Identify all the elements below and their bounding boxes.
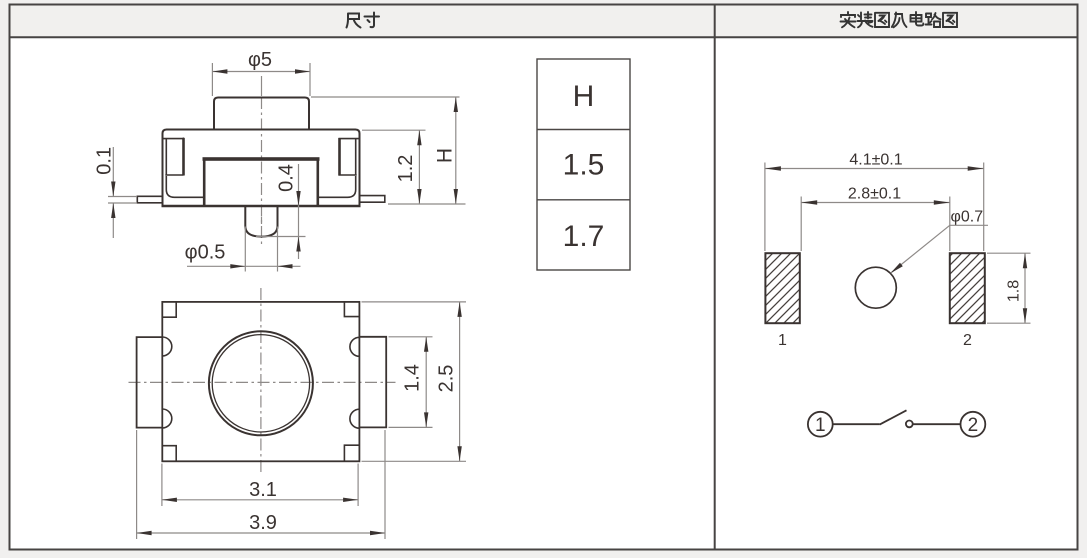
column divider: [714, 5, 716, 550]
glyph 图 (second): [943, 13, 957, 27]
dimension 1.8 arrow bottom: [1023, 308, 1027, 323]
dimension 4.1 arrow right: [968, 166, 984, 170]
dimension 4.1 arrow left: [765, 166, 781, 170]
dimension φ5 extension line left: [211, 63, 213, 96]
center hole outer circle: [209, 331, 313, 435]
svg-text:φ0.7: φ0.7: [951, 209, 984, 226]
dimension 2.5 extension lines: [362, 301, 467, 303]
dimension φ5 arrow right: [295, 69, 310, 73]
dimension 0.4 line: [298, 164, 300, 259]
header bottom rule: [9, 36, 1078, 38]
header row fill: [10, 5, 1078, 37]
H table box: [537, 59, 630, 270]
svg-text:2: 2: [963, 332, 972, 349]
right terminal tab: [359, 337, 386, 428]
glyph 图: [875, 13, 889, 27]
dimension 0.1 line lower: [112, 203, 114, 238]
base body rectangle: [162, 302, 359, 461]
dimension 3.9 line: [137, 532, 385, 534]
dimension 0.1 line upper: [112, 147, 114, 197]
switch contact circle: [906, 421, 913, 428]
φ0.7 underline: [950, 224, 988, 226]
switch blade: [880, 410, 907, 424]
dimension H arrow top: [454, 97, 458, 112]
svg-text:4.1±0.1: 4.1±0.1: [849, 152, 902, 169]
centerline vertical (bottom view): [260, 288, 262, 472]
svg-text:1.2: 1.2: [395, 155, 417, 183]
dimension φ5 arrow left: [212, 69, 227, 73]
dimension φ5 line: [212, 71, 310, 73]
semicircle cutout right-top: [350, 337, 360, 356]
svg-text:1.5: 1.5: [563, 149, 605, 182]
dimension 0.1 arrow up: [111, 203, 115, 218]
glyph 及: [892, 13, 907, 28]
H table row line 1: [537, 129, 630, 131]
H table row line 2: [537, 199, 630, 201]
paste hole circle: [855, 267, 896, 308]
dimension 1.4 arrow bottom: [424, 412, 428, 427]
dimension 0.4 arrow down (to body bottom): [296, 191, 300, 206]
dimension 1.2 arrow top: [417, 130, 421, 145]
bottom extension line (terminal underside): [388, 203, 466, 205]
terminal 1 circle: [808, 412, 833, 437]
inner base left edge: [203, 160, 206, 205]
dimension 2.5 line: [459, 302, 461, 461]
svg-text:H: H: [573, 80, 595, 113]
nub centerline tick: [261, 217, 263, 224]
svg-text:0.4: 0.4: [276, 164, 298, 192]
body bottom edge: [162, 205, 361, 207]
glyph 电: [911, 12, 924, 26]
right terminal: [360, 196, 385, 203]
left terminal tab: [137, 337, 163, 428]
left cover tab: [164, 138, 184, 176]
pad 1: [765, 253, 799, 323]
dimension 1.4 extension lines: [389, 336, 433, 338]
dimension 4.1 extension lines: [764, 163, 766, 252]
svg-text:2.5: 2.5: [436, 365, 458, 393]
centerline (side view vertical): [261, 76, 263, 96]
svg-text:3.1: 3.1: [249, 479, 277, 501]
wire right: [913, 423, 961, 425]
semicircle cutout right-bottom: [350, 409, 360, 428]
header title 安装图及电路图 (right cell): [841, 12, 958, 27]
pad 2: [950, 253, 985, 323]
dimension 1.8 line: [1024, 253, 1026, 323]
dimension 3.1 arrow left: [162, 498, 177, 502]
wire left: [833, 423, 880, 425]
glyph 路: [926, 13, 941, 27]
glyph 尺: [347, 14, 361, 28]
φ0.7 leader line: [892, 225, 950, 272]
right inner fillet: [319, 176, 356, 197]
dimension 3.9 arrow left: [137, 531, 152, 535]
switch body outline: [163, 130, 360, 207]
dimension 1.4 arrow top: [424, 337, 428, 352]
svg-text:2.8±0.1: 2.8±0.1: [848, 186, 901, 203]
left terminal: [137, 196, 162, 203]
dimension 0.4 arrow up (to nub bottom): [296, 237, 300, 252]
svg-text:3.9: 3.9: [249, 512, 277, 534]
corner notch top-left: [162, 302, 176, 317]
dimension 2.5 arrow bottom: [457, 446, 461, 461]
dimension 1.2 arrow bottom: [417, 189, 421, 204]
φ0.7 leader arrow: [890, 263, 903, 274]
extension line H top (from button top): [311, 96, 460, 98]
svg-text:1: 1: [778, 332, 787, 349]
dimension 2.5 arrow top: [457, 302, 461, 317]
corner notch bottom-left: [162, 446, 176, 462]
dimension 2.8 extension lines: [800, 197, 802, 252]
dimension φ0.5 arrow right (pointing left): [278, 264, 293, 268]
dimension 2.8 arrow left: [801, 200, 817, 204]
dimension 3.1 line: [162, 499, 358, 501]
center hole inner circle: [212, 335, 309, 432]
svg-text:H: H: [434, 148, 457, 163]
push button stem: [214, 98, 309, 130]
dimension 2.8 arrow right: [934, 200, 950, 204]
dimension 0.1 extension lines: [108, 196, 137, 198]
dimension 3.1 arrow right: [343, 498, 358, 502]
dimension φ0.5 extension lines: [244, 227, 246, 272]
dimension 2.8 line: [801, 202, 950, 204]
dimension 3.9 extension lines: [136, 430, 138, 539]
glyph 寸: [365, 13, 380, 28]
dimension 1.4 line: [425, 337, 427, 428]
inner base top band: [203, 157, 320, 161]
svg-text:0.1: 0.1: [93, 147, 115, 175]
centerline horizontal (bottom view): [129, 381, 396, 383]
dimension φ0.5 arrow left (pointing right): [230, 264, 245, 268]
dimension φ0.5 line: [187, 265, 301, 267]
dimension 3.9 arrow right: [370, 531, 385, 535]
terminal 2 circle: [961, 412, 986, 437]
svg-text:φ5: φ5: [248, 49, 272, 71]
glyph 安: [841, 12, 856, 27]
bottom nub: [245, 206, 277, 237]
svg-text:1.7: 1.7: [563, 220, 605, 253]
dimension 1.2 extension line top: [362, 129, 426, 131]
svg-text:1.4: 1.4: [402, 364, 424, 392]
dimension H line: [455, 97, 457, 204]
corner notch top-right: [344, 302, 359, 317]
svg-text:2: 2: [968, 415, 979, 436]
svg-text:1: 1: [815, 415, 826, 436]
right cover tab: [339, 139, 359, 175]
dimension 1.2 line: [418, 130, 420, 204]
nub bottom extension line: [256, 236, 306, 238]
dimension 4.1 line: [765, 168, 984, 170]
svg-text:1.8: 1.8: [1005, 280, 1022, 302]
inner base right edge: [316, 160, 319, 205]
svg-text:φ0.5: φ0.5: [185, 242, 226, 264]
semicircle cutout left-top: [162, 337, 172, 356]
dimension 1.8 arrow top: [1023, 253, 1027, 268]
header title 尺寸 (left cell): [347, 13, 380, 28]
semicircle cutout left-bottom: [162, 409, 172, 428]
dimension 1.8 extension lines: [987, 252, 1031, 254]
corner notch bottom-right: [344, 445, 359, 461]
dimension 3.1 extension lines: [161, 464, 163, 507]
dimension H arrow bottom: [454, 189, 458, 204]
left inner fillet: [166, 176, 203, 197]
glyph 装: [858, 12, 873, 27]
dimension 0.1 arrow down: [111, 182, 115, 197]
dimension φ5 extension line right: [309, 63, 311, 96]
